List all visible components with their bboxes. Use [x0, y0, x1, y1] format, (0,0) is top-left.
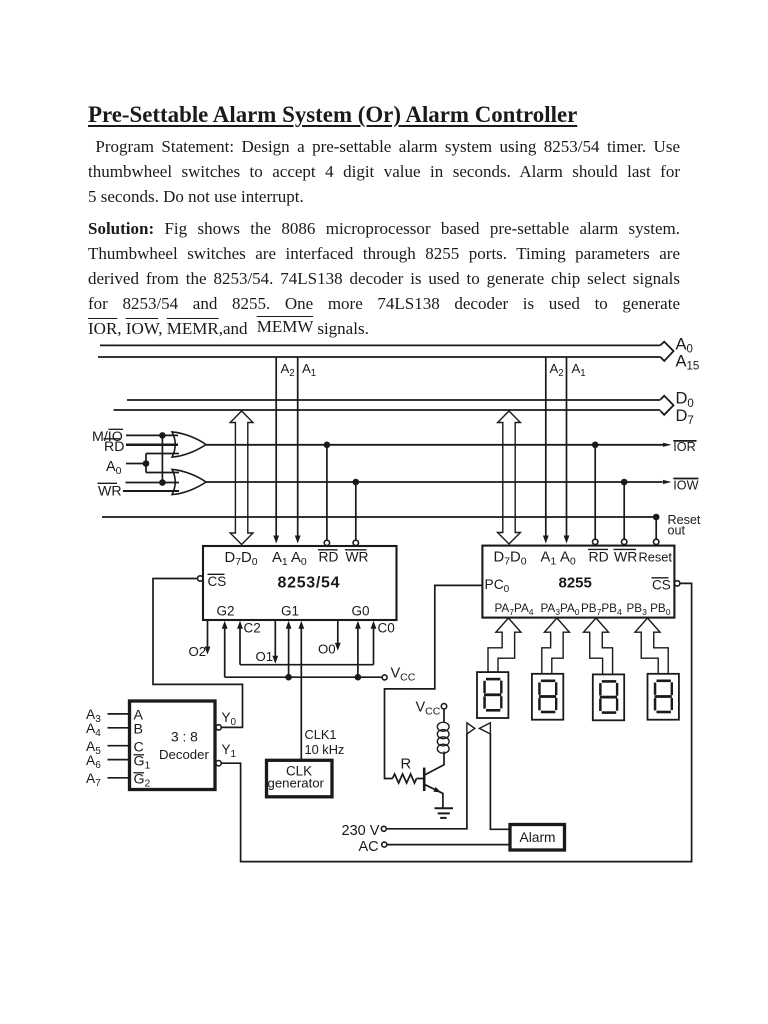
pin O2: [207, 620, 209, 649]
svg-text:G0: G0: [352, 604, 370, 619]
wire contact to alarm: [490, 734, 510, 829]
svg-text:RD: RD: [319, 550, 339, 565]
bus transceiver arrow to 8253: [230, 411, 253, 545]
7-segment display DS3: [593, 674, 624, 720]
wire A tap 8255 x566.5: [566, 357, 568, 537]
wire gate rail to Vcc: [225, 676, 382, 678]
node IOR-RD 8253: [324, 442, 331, 449]
wire decoder input A4: [108, 727, 130, 729]
svg-text:CLK1: CLK1: [305, 727, 337, 742]
svg-text:A7: A7: [86, 771, 101, 789]
IC CLK generator box: [267, 760, 333, 797]
wire A0 jog: [145, 454, 147, 473]
paragraph 1: [88, 134, 680, 209]
alarm box: [510, 825, 565, 851]
or-gate U2 (IOW) body: [172, 469, 206, 494]
wire WR to U2: [123, 490, 179, 492]
resistor R: [392, 774, 416, 783]
wire M/IO vertical to U2: [161, 435, 163, 482]
wire RD 8255: [594, 445, 596, 539]
svg-text:C2: C2: [244, 621, 261, 636]
wire Reset 8255: [655, 517, 657, 539]
svg-text:A1: A1: [572, 361, 586, 379]
wire WR 8253: [355, 482, 357, 540]
svg-text:PB3 PB0: PB3 PB0: [627, 602, 671, 617]
ground: [435, 807, 454, 809]
svg-text:PA3PA0: PA3PA0: [541, 602, 580, 617]
node IOW-WR 8255: [621, 479, 628, 486]
svg-text:3 : 8: 3 : 8: [171, 730, 198, 745]
node G0-rail: [355, 674, 362, 681]
wire M/IO to U1: [126, 434, 178, 436]
node IOR-RD 8255: [592, 442, 599, 449]
thumbwheel arrow 3: [584, 618, 613, 674]
svg-text:C0: C0: [378, 621, 395, 636]
thumbwheel arrow 2: [542, 618, 570, 674]
transistor collector: [425, 752, 444, 775]
svg-text:generator: generator: [268, 776, 325, 791]
wire Y1 to 8255 CS: [221, 583, 691, 861]
svg-text:G2: G2: [217, 604, 235, 619]
svg-text:VCC: VCC: [416, 700, 441, 718]
IC 8255 box: [482, 546, 674, 618]
wire AC to alarm: [387, 844, 510, 846]
paragraph 2: [88, 216, 680, 341]
bus transceiver arrow to 8255: [498, 411, 521, 544]
svg-text:8253/54: 8253/54: [278, 575, 341, 592]
svg-text:PB7PB4: PB7PB4: [581, 602, 622, 617]
transistor emitter: [425, 785, 443, 808]
7-segment display DS4: [648, 674, 679, 720]
pin Vcc circle (coil): [441, 704, 446, 709]
wire A tap 8253 x297.7: [297, 357, 299, 537]
svg-text:RD: RD: [589, 549, 609, 565]
IC 3:8 decoder box: [130, 701, 216, 790]
svg-text:PA7PA4: PA7PA4: [495, 602, 534, 617]
pin G2: [224, 626, 226, 677]
wire RD 8253: [326, 445, 328, 540]
relay contact right triangle: [479, 723, 490, 734]
pin 230V circle: [381, 826, 386, 831]
pin G0: [357, 626, 359, 677]
svg-text:CS: CS: [652, 578, 671, 593]
svg-text:IOR: IOR: [673, 440, 695, 454]
7-segment display DS1: [477, 672, 508, 718]
svg-text:out: out: [668, 524, 686, 538]
pin Y0 circle: [216, 725, 221, 730]
node Reset junction: [653, 514, 660, 521]
wire A tap 8255 x545.8: [545, 357, 547, 537]
svg-text:230 V: 230 V: [342, 823, 380, 839]
svg-text:WR: WR: [98, 484, 122, 500]
svg-text:B: B: [134, 722, 143, 738]
pin O1: [274, 620, 276, 659]
svg-text:Reset: Reset: [639, 550, 673, 565]
node U2 junction: [159, 479, 166, 486]
wire 8253 CS to decoder Y0: [153, 579, 243, 728]
svg-text:G1: G1: [281, 604, 299, 619]
wire decoder input A6: [108, 759, 130, 761]
relay contact left triangle: [467, 723, 475, 734]
svg-text:R: R: [401, 757, 412, 773]
wire PC0 to R: [385, 585, 483, 778]
wire decoder input A5: [108, 745, 130, 747]
wire A tap 8253 x276.2: [275, 357, 277, 537]
svg-text:A2: A2: [550, 361, 564, 379]
wire IOR line: [206, 444, 664, 446]
node A0 junction: [143, 460, 150, 467]
pin AC circle: [382, 842, 387, 847]
pin CS circle 8255: [675, 581, 680, 586]
address bus A0-A15: [100, 344, 660, 346]
svg-text:Y1: Y1: [222, 742, 237, 760]
pin CLK1 wire to generator: [300, 626, 302, 760]
node G1-rail: [285, 674, 292, 681]
IC 8253/54 box: [203, 546, 397, 620]
svg-text:Decoder: Decoder: [159, 747, 209, 762]
wire Reset out line: [102, 516, 659, 518]
transistor Q1 base bar: [423, 768, 426, 791]
wire 230V to contact: [386, 734, 467, 829]
wire O1-C2-C0 rail: [240, 664, 374, 666]
svg-text:8255: 8255: [559, 575, 592, 592]
svg-text:Y0: Y0: [222, 710, 237, 728]
pin O0: [337, 620, 339, 646]
svg-text:WR: WR: [614, 549, 637, 565]
pin CS circle 8253: [198, 576, 203, 581]
svg-text:A2: A2: [281, 361, 295, 379]
pin G1: [288, 626, 290, 677]
svg-text:WR: WR: [346, 550, 369, 565]
wire coil to Vcc: [443, 709, 445, 722]
svg-text:O0: O0: [318, 642, 336, 657]
wire to U2 middle: [126, 482, 180, 484]
svg-text:CS: CS: [208, 574, 227, 589]
svg-text:A0: A0: [106, 459, 122, 477]
svg-text:O1: O1: [256, 649, 274, 664]
svg-text:RD: RD: [104, 439, 125, 455]
thumbwheel arrow 4: [635, 618, 668, 674]
wire decoder input A3: [108, 713, 130, 715]
title: [88, 102, 577, 128]
node M/IO junction: [159, 432, 166, 439]
node IOW-WR 8253: [353, 479, 360, 486]
wire IOW line: [206, 481, 663, 483]
pin C2: [239, 626, 241, 665]
relay coil L1: [437, 722, 449, 731]
emitter arrow: [433, 787, 440, 793]
wire A0: [126, 463, 146, 465]
wire WR 8255: [623, 482, 625, 539]
data bus D0-D7: [127, 399, 660, 401]
svg-text:AC: AC: [359, 839, 379, 855]
pin Y1 circle: [216, 761, 221, 766]
svg-text:VCC: VCC: [391, 666, 416, 684]
thumbwheel arrow 1: [488, 618, 521, 672]
svg-text:Alarm: Alarm: [520, 830, 556, 845]
or-gate U1 (IOR) body: [172, 432, 206, 457]
7-segment display DS2: [532, 674, 563, 720]
svg-text:10 kHz: 10 kHz: [305, 742, 345, 757]
wire RD to U1: [126, 444, 178, 447]
svg-text:A1: A1: [302, 361, 316, 379]
pin C0: [373, 626, 375, 665]
wire decoder input A7: [108, 777, 130, 779]
svg-text:IOW: IOW: [673, 479, 698, 493]
svg-text:O2: O2: [189, 644, 207, 659]
